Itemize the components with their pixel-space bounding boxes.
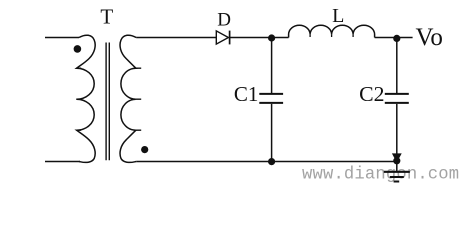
diode D triangle [216, 31, 228, 44]
transformer T secondary winding (right coil) [120, 35, 136, 162]
wire: C1 branch top [271, 38, 273, 94]
wire: C2 branch top [396, 38, 398, 93]
ground stub [396, 161, 398, 171]
wire: bottom rail [136, 161, 397, 163]
transformer core [106, 43, 109, 161]
node: secondary polarity dot [141, 146, 148, 153]
wire: diode cathode to node A [230, 37, 289, 39]
svg-text:Vo: Vo [416, 24, 443, 51]
diode D cathode bar [229, 31, 231, 45]
transformer primary winding cusp ticks [76, 68, 81, 130]
svg-text:C1: C1 [234, 82, 259, 106]
wire: primary bottom lead [45, 161, 80, 163]
inductor cusp ticks [310, 34, 353, 37]
capacitor C2 plates [385, 94, 409, 103]
capacitor C1 plates [259, 94, 283, 103]
svg-text:T: T [100, 4, 113, 28]
svg-text:D: D [217, 10, 231, 31]
wire: C1 branch bottom [271, 104, 273, 162]
wire: inductor to output node [375, 37, 413, 39]
ground arrowhead [392, 153, 402, 162]
transformer secondary winding cusp ticks [136, 68, 142, 130]
node: ground junction dot [393, 157, 400, 164]
wire: C2 branch bottom [396, 104, 398, 161]
node: primary polarity dot [74, 45, 82, 53]
ground bars [384, 172, 410, 182]
svg-text:L: L [332, 5, 344, 27]
svg-text:C2: C2 [359, 82, 384, 106]
wire: secondary top lead to diode anode [136, 37, 216, 39]
transformer T primary winding (left coil) [77, 35, 96, 162]
inductor L [289, 25, 375, 37]
wire: primary top lead [45, 37, 79, 39]
node: bottom C1 junction dot [268, 158, 275, 165]
svg-text:www.diangon.com: www.diangon.com [302, 166, 459, 185]
node Vo junction dot (L-C2) [393, 35, 400, 42]
node A junction dot (diode-L-C1) [268, 34, 275, 41]
